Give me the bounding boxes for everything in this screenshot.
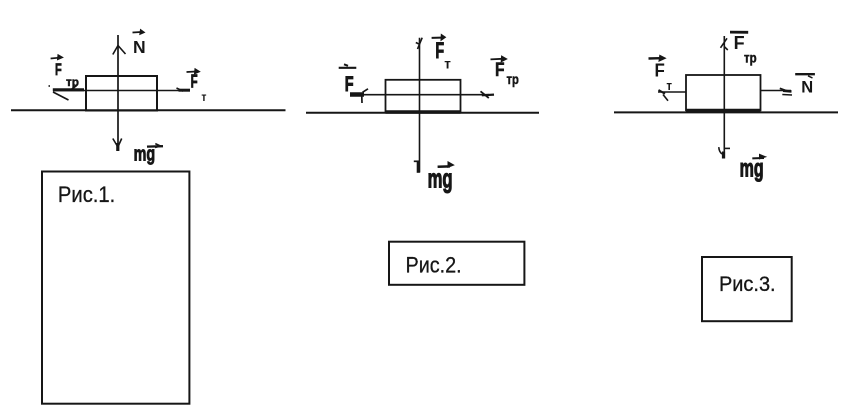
svg-text:mg: mg [740, 155, 764, 182]
svg-text:mg: mg [428, 164, 453, 194]
fig2 horizontal force line [363, 94, 489, 96]
svg-text:F: F [655, 60, 665, 81]
fig1 horizontal force line [53, 90, 188, 92]
fig2 left thick arrowhead (F) [350, 89, 368, 103]
svg-text:тр: тр [66, 75, 79, 89]
fig2 label F_t (top) [432, 34, 452, 71]
fig2 label mg [428, 162, 454, 194]
fig3 label F (left, F_t) [649, 55, 673, 93]
svg-text:тр: тр [507, 72, 520, 87]
fig3 vertical axis line [723, 36, 725, 159]
fig3 block [686, 75, 761, 110]
svg-text:F: F [734, 33, 745, 53]
svg-text:т: т [201, 91, 207, 104]
fig2 label F_tr (right) [491, 56, 520, 87]
fig2 vertical axis line [419, 38, 421, 173]
svg-text:Рис.3.: Рис.3. [719, 273, 776, 297]
fig3 up arrowhead (F_tr) [721, 38, 728, 50]
fig1 label F (left, F_tr) [51, 55, 79, 89]
svg-text:F: F [191, 72, 198, 92]
fig3 ground line [614, 111, 838, 113]
fig1 block [86, 76, 157, 111]
fig1 label mg [134, 142, 163, 165]
fig3 left arrowhead (F_t) [659, 90, 669, 101]
svg-text:Рис.1.: Рис.1. [58, 183, 115, 207]
fig1 mg arrowhead [113, 139, 122, 152]
svg-text:F: F [495, 59, 505, 81]
fig3 right horizontal force line [761, 90, 792, 92]
fig2 down arrowhead (mg) [414, 161, 420, 173]
fig2 label F (left) [339, 64, 357, 96]
fig2 right arrowhead (F_tr) [481, 91, 495, 98]
svg-text:т: т [444, 56, 451, 71]
svg-text:т: т [666, 79, 672, 94]
svg-text:Рис.2.: Рис.2. [406, 254, 462, 278]
svg-text:F: F [435, 38, 444, 63]
fig1 caption box [42, 172, 189, 404]
fig1 right arrowhead (F_t) [177, 88, 191, 91]
svg-text:тр: тр [744, 50, 757, 65]
fig2 caption box [389, 242, 524, 285]
fig1 left arrowhead (F_tr) [49, 86, 85, 100]
fig3 left horizontal force line [658, 91, 686, 93]
fig3 down arrowhead (mg) [719, 147, 730, 158]
fig2 block thick bottom edge [386, 110, 461, 113]
svg-text:F: F [345, 73, 354, 96]
fig3 label mg [740, 154, 766, 182]
fig1 vertical axis line (N up / mg down) [117, 35, 119, 150]
fig3 label F_tr (top) [730, 32, 757, 65]
fig2 ground line [306, 112, 539, 114]
fig1 ground line [11, 109, 286, 111]
fig3 block thick bottom edge [686, 109, 761, 112]
svg-text:F: F [55, 60, 62, 79]
fig3 label N [795, 74, 815, 97]
fig1 label F (right, F_t) [187, 69, 208, 104]
fig1 label N [133, 30, 146, 58]
svg-text:N: N [801, 79, 813, 97]
fig2 block [386, 80, 461, 112]
fig1 N arrowhead [113, 46, 126, 55]
fig2 up arrowhead (F_t) [416, 38, 422, 49]
svg-text:N: N [133, 37, 146, 57]
fig3 right double arrowhead (N) [780, 88, 792, 95]
fig3 caption box [702, 257, 792, 321]
